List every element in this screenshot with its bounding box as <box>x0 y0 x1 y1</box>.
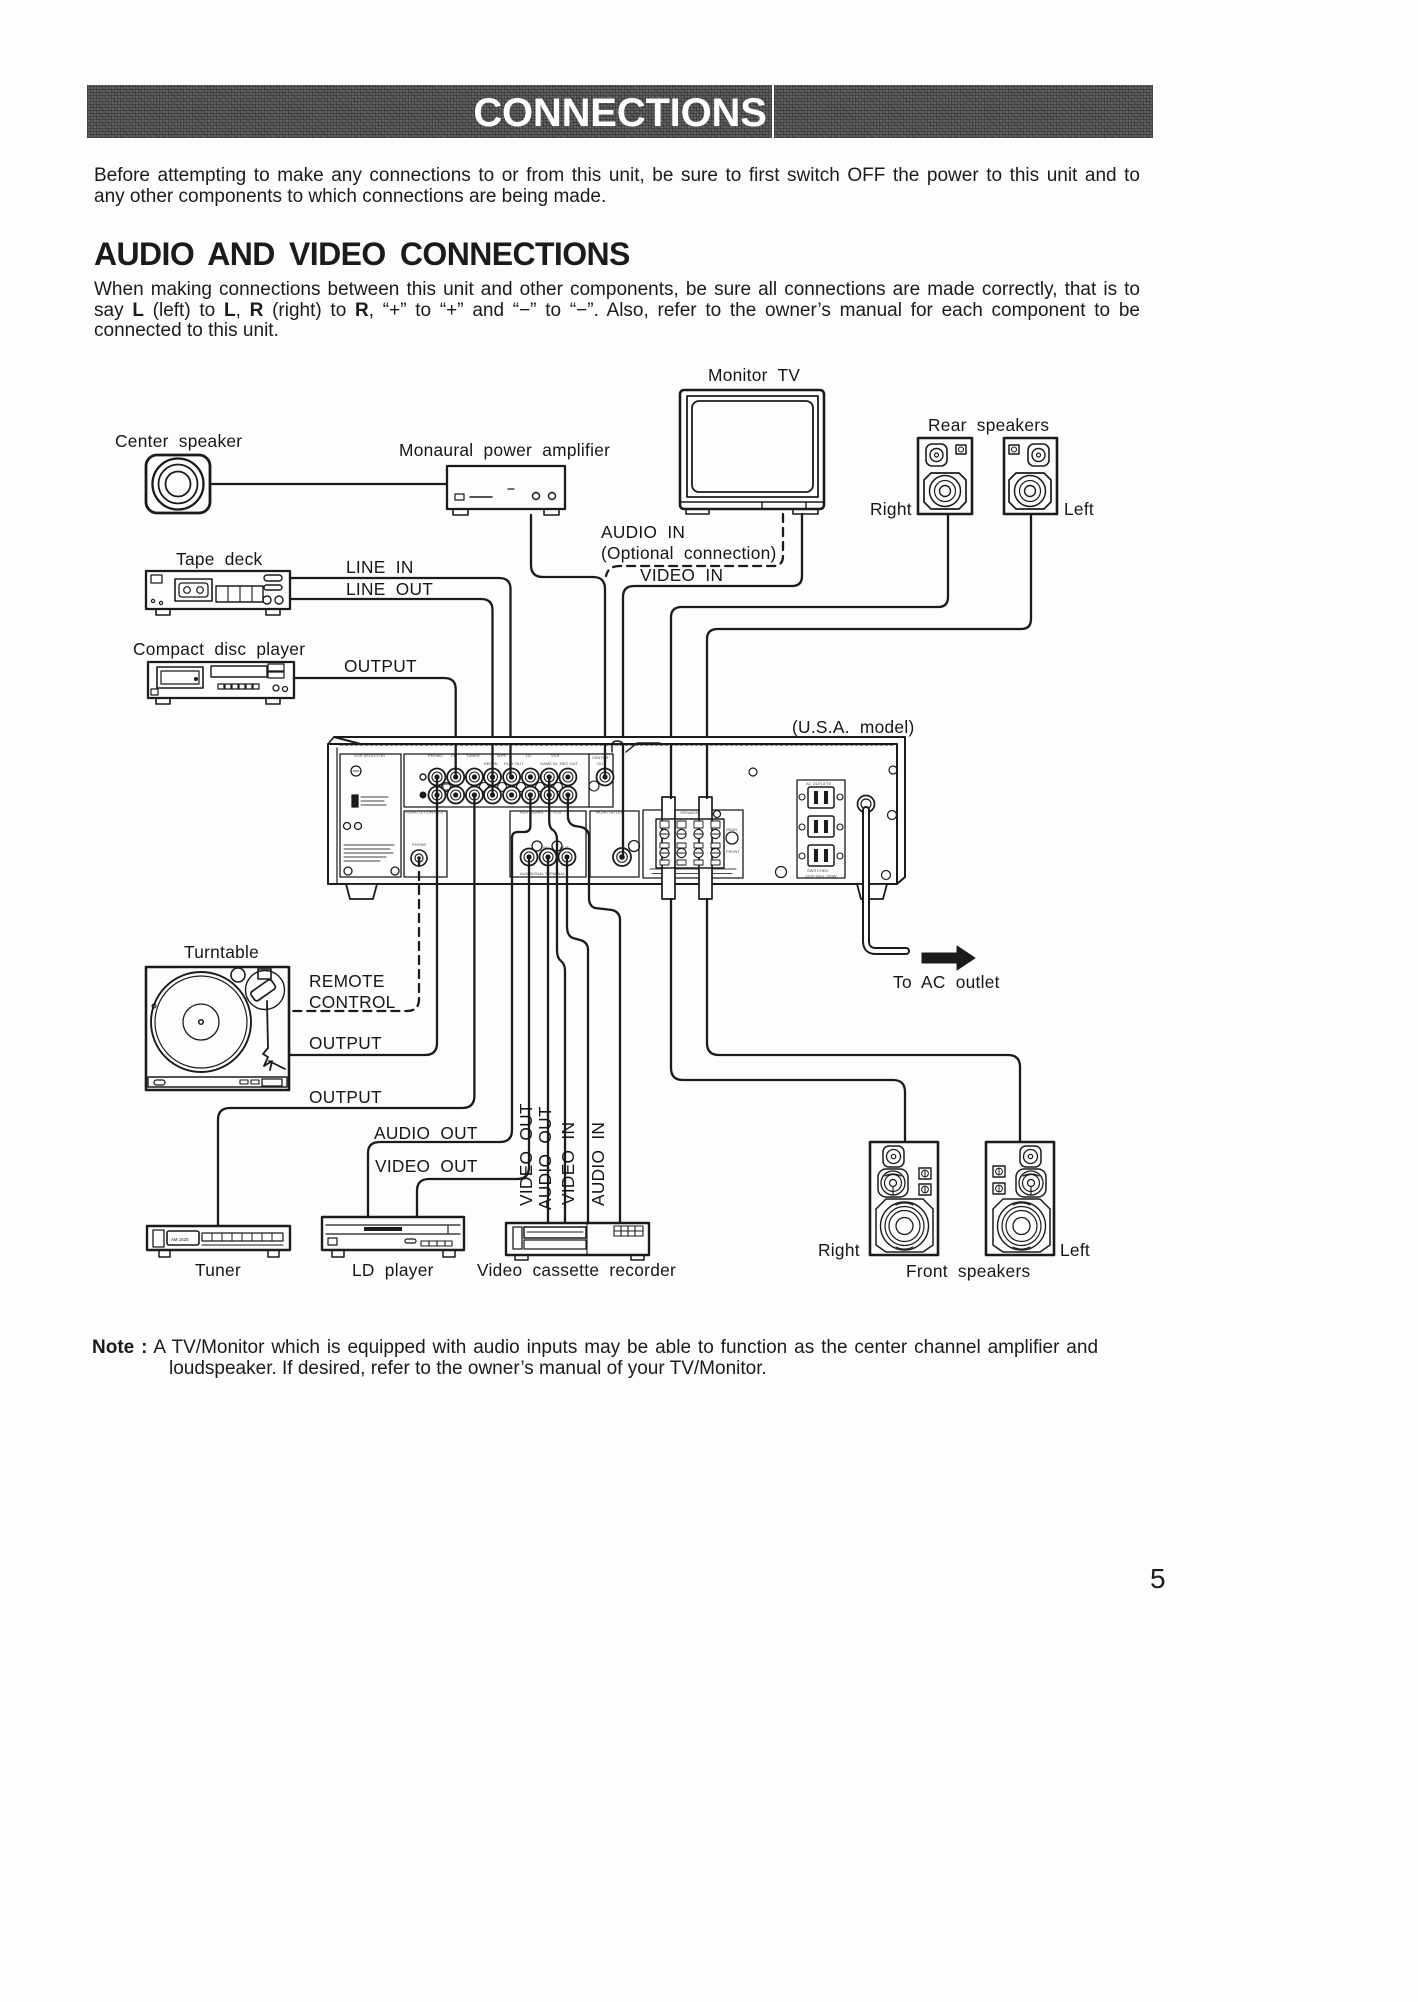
wire dashed AUDIO IN optional connection TV to receiver <box>606 514 783 576</box>
AC power cord <box>858 796 907 952</box>
wire segments over receiver face <box>456 744 707 857</box>
svg-text:REMOTE: REMOTE <box>309 971 385 991</box>
receiver cord hook notch <box>612 741 660 752</box>
tuner <box>147 1226 290 1257</box>
svg-text:OUTPUT: OUTPUT <box>344 656 417 676</box>
svg-text:REMOTE CONTROL: REMOTE CONTROL <box>406 810 445 815</box>
front speaker left <box>986 1142 1054 1255</box>
svg-text:Video cassette recorder: Video cassette recorder <box>477 1260 676 1280</box>
svg-text:AM 1520: AM 1520 <box>171 1237 189 1242</box>
wire AUX jack 1 to LD player VIDEO OUT <box>417 857 529 1217</box>
svg-text:(U.S.A. model): (U.S.A. model) <box>792 717 915 737</box>
wire VCR top jack to VCR AUDIO OUT <box>549 777 565 1223</box>
svg-text:LINE OUT: LINE OUT <box>346 579 433 599</box>
svg-text:REAR: REAR <box>726 827 737 832</box>
svg-text:Turntable: Turntable <box>184 942 259 962</box>
svg-text:AUX SIGNAL TERMINAL: AUX SIGNAL TERMINAL <box>520 871 566 876</box>
svg-text:REC IN: REC IN <box>484 761 498 766</box>
svg-text:VCR: VCR <box>551 753 560 758</box>
svg-text:Right: Right <box>818 1240 860 1260</box>
svg-text:Rear speakers: Rear speakers <box>928 415 1049 435</box>
svg-text:AUDIO OUT: AUDIO OUT <box>374 1123 478 1143</box>
svg-text:Tuner: Tuner <box>195 1260 241 1280</box>
monitor out panel <box>590 810 640 878</box>
svg-text:AC OUTLETS: AC OUTLETS <box>806 781 831 786</box>
input jack panel <box>404 753 613 807</box>
svg-text:LD: LD <box>526 753 531 758</box>
wire rear left speaker to receiver <box>707 514 1031 797</box>
svg-text:FRONT: FRONT <box>726 849 740 854</box>
svg-text:VIDEO OUT: VIDEO OUT <box>516 1103 536 1206</box>
wire CD into jack <box>455 744 457 777</box>
link circles between jacks <box>442 781 600 792</box>
svg-text:OUTPUT: OUTPUT <box>309 1087 382 1107</box>
wire front left speaker from receiver <box>707 899 1020 1142</box>
svg-text:Left: Left <box>1060 1240 1090 1260</box>
LD player <box>322 1217 464 1257</box>
svg-text:AUDIO OUT: AUDIO OUT <box>535 1106 555 1210</box>
front speaker right <box>870 1142 938 1255</box>
wire front right speaker from receiver <box>671 899 905 1142</box>
svg-text:Compact disc player: Compact disc player <box>133 639 305 659</box>
svg-text:Right: Right <box>870 499 912 519</box>
svg-text:VIDEO IN: VIDEO IN <box>558 1122 578 1205</box>
monitor TV <box>680 390 824 514</box>
wire amplifier to CENTER OUT jack <box>531 515 605 777</box>
svg-text:LD player: LD player <box>352 1260 434 1280</box>
turntable <box>146 967 289 1090</box>
indicator dots <box>420 774 426 780</box>
svg-text:PLAY OUT: PLAY OUT <box>504 761 524 766</box>
wire CENTER into jack <box>604 744 606 777</box>
rear speaker left <box>1004 438 1057 514</box>
svg-text:AUX SIGNAL: AUX SIGNAL <box>520 810 545 815</box>
receiver rear panel body <box>328 737 905 884</box>
arrow to AC outlet <box>922 946 975 970</box>
remote control panel <box>404 810 447 878</box>
video cassette recorder <box>506 1223 649 1260</box>
svg-text:REC OUT: REC OUT <box>560 761 579 766</box>
svg-text:VIDEO IN: VIDEO IN <box>640 565 723 585</box>
svg-text:Left: Left <box>1064 499 1094 519</box>
RCA jacks bottom row <box>429 787 577 804</box>
wire tape deck LINE OUT to TAPE jack <box>290 599 493 795</box>
DIAGRAM <box>115 365 1094 857</box>
svg-text:GAME IN: GAME IN <box>540 761 557 766</box>
wire CD player OUTPUT to CD jack <box>294 678 456 777</box>
svg-text:(Optional connection): (Optional connection) <box>601 543 777 563</box>
svg-text:To AC outlet: To AC outlet <box>893 972 1000 992</box>
wire LINE OUT into jack <box>491 744 493 795</box>
RCA jacks top row <box>429 769 614 804</box>
wire rear left into ribbon <box>706 744 708 798</box>
receiver left foot <box>346 884 377 899</box>
svg-text:OUTPUT: OUTPUT <box>309 1033 382 1053</box>
receiver right foot <box>857 884 887 899</box>
svg-text:VIDEO OUT: VIDEO OUT <box>375 1156 478 1176</box>
svg-text:VCR SELECTOR: VCR SELECTOR <box>354 753 385 758</box>
svg-text:Monitor TV: Monitor TV <box>708 365 800 385</box>
svg-text:AUDIO IN: AUDIO IN <box>588 1122 608 1206</box>
wire PHONO jack to turntable OUTPUT <box>290 777 437 1055</box>
panel screws <box>749 766 897 880</box>
wire AUX jack 2 to VCR VIDEO OUT <box>547 857 549 1223</box>
svg-text:Tape deck: Tape deck <box>176 549 263 569</box>
speakers terminal plate <box>643 810 743 878</box>
monaural power amplifier <box>447 466 565 515</box>
svg-text:LINE IN: LINE IN <box>346 557 414 577</box>
svg-text:TUNER: TUNER <box>466 753 480 758</box>
compact disc player <box>148 662 294 704</box>
wire rear right into ribbon <box>670 744 672 798</box>
wire dashed REMOTE CONTROL receiver to turntable <box>290 858 419 1011</box>
speaker terminal block <box>656 819 724 868</box>
svg-text:Front speakers: Front speakers <box>906 1261 1031 1281</box>
svg-text:Center speaker: Center speaker <box>115 431 242 451</box>
header bar <box>87 85 1153 138</box>
wire center speaker to amplifier <box>210 483 447 485</box>
tape deck <box>146 571 290 615</box>
svg-text:AUDIO IN: AUDIO IN <box>601 522 685 542</box>
svg-text:PHONE: PHONE <box>412 842 427 847</box>
wire VCR bottom jack to VCR AUDIO IN <box>568 795 620 1223</box>
AC outlets plate <box>797 780 845 879</box>
speaker cable ribbon left <box>699 797 712 899</box>
AUX signal VCR panel <box>510 810 586 878</box>
VCR selector panel <box>340 753 401 877</box>
wire TUNER jack to tuner OUTPUT <box>218 795 474 1226</box>
svg-text:MONITOR OUT: MONITOR OUT <box>596 810 625 815</box>
wire AUX jack 3 to VCR VIDEO IN <box>567 857 588 1223</box>
center speaker <box>146 455 210 513</box>
svg-text:TAPE: TAPE <box>496 753 506 758</box>
svg-text:CONTROL: CONTROL <box>309 992 396 1012</box>
CENTER OUT jack <box>597 769 614 786</box>
wire LINE IN into jack <box>509 744 511 777</box>
wire VIDEO IN into MONITOR OUT jack <box>622 744 624 857</box>
svg-text:PHONO: PHONO <box>428 753 443 758</box>
svg-text:VCR: VCR <box>553 810 562 815</box>
wire rear right speaker to receiver <box>671 514 948 797</box>
svg-text:Monaural power amplifier: Monaural power amplifier <box>399 440 610 460</box>
rear speaker right <box>918 438 972 514</box>
wire VIDEO IN TV to MONITOR OUT jack <box>623 514 802 857</box>
wire LD bottom jack to LD player AUDIO OUT <box>368 795 530 1217</box>
svg-text:120V 60Hz 100W: 120V 60Hz 100W <box>805 874 837 879</box>
speaker cable ribbon right <box>662 797 675 899</box>
svg-text:SWITCHED: SWITCHED <box>807 868 828 873</box>
wire tape deck LINE IN to TAPE jack <box>290 578 511 777</box>
